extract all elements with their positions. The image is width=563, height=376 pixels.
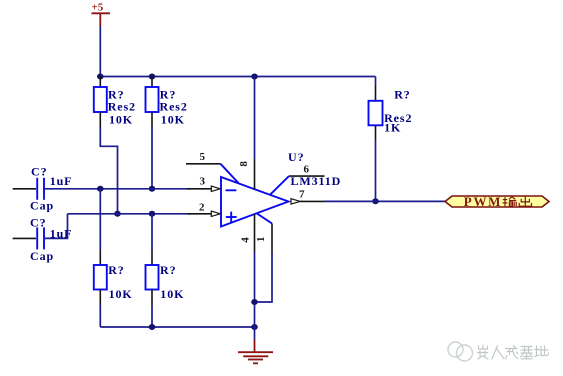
resistor R3 (1K, right) (369, 77, 413, 141)
wire pin4 down to ground (254, 252, 256, 327)
label 输 glyph (503, 197, 517, 207)
svg-text:4: 4 (240, 237, 252, 243)
svg-text:2: 2 (199, 201, 205, 213)
wire pin1 to pin4 (255, 253, 273, 302)
svg-text:10K: 10K (109, 112, 133, 126)
svg-text:Res2: Res2 (160, 99, 188, 113)
node junction R3 output (372, 198, 379, 204)
svg-text:U?: U? (288, 150, 304, 164)
svg-text:5: 5 (200, 151, 206, 163)
power +5 (92, 2, 111, 27)
svg-text:3: 3 (200, 175, 206, 187)
svg-text:+5: +5 (92, 2, 104, 14)
svg-text:PWM: PWM (464, 194, 502, 209)
wire R5 top (from wire2 down) (151, 214, 153, 250)
node junction wire3-R4 (97, 186, 104, 192)
resistor R1 (10K, top-left) (94, 77, 136, 128)
pin 6 stub (270, 164, 325, 195)
wire R3 to output (375, 140, 377, 201)
wire C2 jog to wire2 (45, 214, 68, 239)
svg-text:C?: C? (30, 215, 46, 229)
wire top bus (100, 76, 375, 78)
watermark text (faint CJK strokes) (478, 345, 549, 359)
port PWM output flag (445, 194, 549, 209)
label 出 glyph (519, 197, 531, 207)
op-amp U1 LM311D triangle (221, 177, 289, 227)
node junction top-mid (149, 74, 156, 80)
node junction wire2-R5 (149, 211, 156, 217)
node junction R2 on wire3 (149, 186, 156, 192)
node junction top-left (97, 74, 104, 80)
pin 8 (238, 159, 255, 189)
wire R2 to wire3 (151, 127, 153, 189)
node junction pin8 branch (251, 74, 258, 80)
resistor R2 (10K, top-mid) (146, 77, 188, 128)
svg-text:R?: R? (108, 263, 124, 277)
wire bottom bus (100, 326, 254, 328)
node junction R5 bottom (149, 324, 156, 330)
wire 2 (non-inverting input net) (68, 213, 191, 215)
ground (238, 327, 273, 363)
wire R1 jog to wire2 (100, 127, 117, 214)
svg-text:1: 1 (255, 237, 267, 243)
svg-text:Res2: Res2 (108, 99, 136, 113)
op-amp plus symbol (226, 212, 237, 223)
wire R4 bottom corner (99, 305, 101, 327)
svg-text:1uF: 1uF (50, 174, 73, 188)
svg-text:10K: 10K (161, 112, 185, 126)
svg-text:R?: R? (394, 88, 410, 102)
svg-text:Cap: Cap (30, 249, 54, 263)
pin 3 (inverting input) (188, 175, 221, 191)
wire R4 top (from wire3 down) (99, 189, 101, 250)
svg-text:8: 8 (238, 161, 250, 167)
svg-text:R?: R? (160, 263, 176, 277)
svg-text:10K: 10K (160, 287, 184, 301)
wire R5 bottom (151, 305, 153, 327)
pin 7 (output) (291, 188, 325, 204)
svg-text:LM311D: LM311D (291, 174, 342, 188)
svg-text:10K: 10K (109, 287, 133, 301)
pin 4 (V-) (240, 214, 255, 252)
wire 3 (inverting input net) (45, 188, 190, 190)
wire +5 stem (99, 26, 101, 77)
svg-text:Cap: Cap (30, 198, 54, 212)
pin 2 (non-inverting input) (188, 201, 221, 216)
wire output net (325, 200, 446, 202)
op-amp minus symbol (226, 189, 237, 191)
node junction pin1/pin4 (251, 299, 258, 305)
node junction jog on wire2 (114, 211, 121, 217)
capacitor C2 (1uF, lower) (13, 215, 73, 262)
node junction ground (251, 324, 258, 330)
watermark logo circles (448, 342, 473, 361)
resistor R4 (10K, bottom-left) (94, 250, 133, 305)
svg-text:1K: 1K (384, 121, 401, 135)
svg-text:C?: C? (31, 164, 47, 178)
svg-text:7: 7 (299, 188, 305, 200)
capacitor C1 (1uF, upper) (13, 164, 73, 212)
wire pin8 (V+) (254, 77, 256, 160)
pin 1 (gnd) jog (255, 213, 272, 253)
pin 5 stub (186, 151, 239, 183)
resistor R5 (10K, bottom-right) (146, 250, 185, 305)
